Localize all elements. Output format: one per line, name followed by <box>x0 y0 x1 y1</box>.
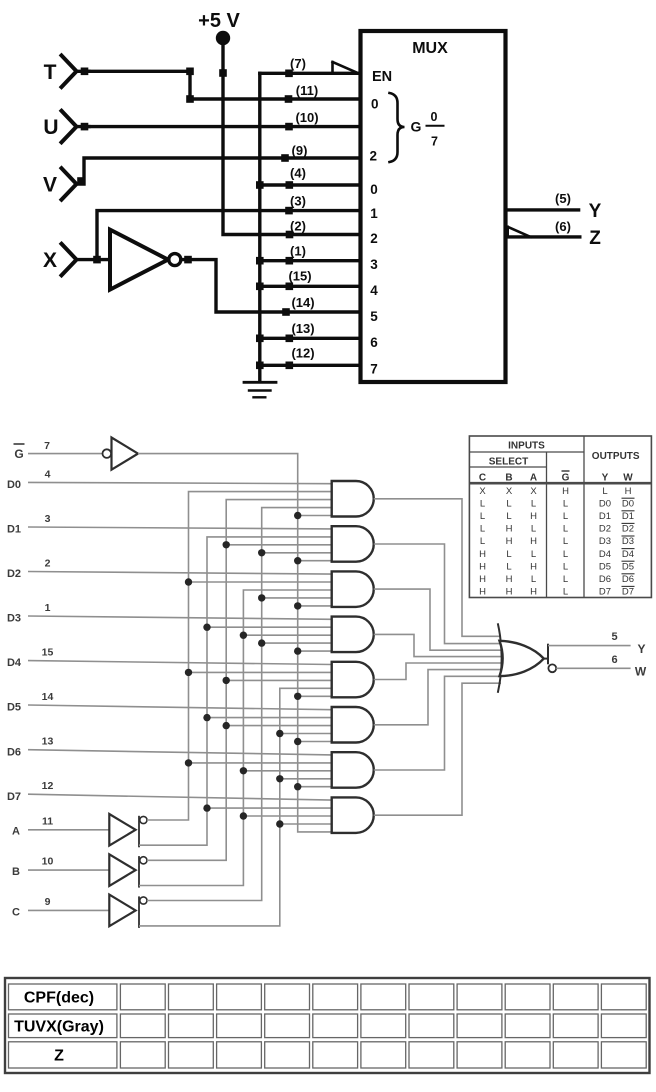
wire pin (4) from ground bus <box>260 183 359 186</box>
node dot C gate 8 <box>276 820 283 827</box>
svg-text:L: L <box>563 511 568 522</box>
svg-text:H: H <box>506 524 513 535</box>
wire S to gate 4 <box>298 650 334 652</box>
buffer A <box>109 814 147 847</box>
ground <box>244 382 276 397</box>
svg-text:2: 2 <box>370 231 378 246</box>
wire D7 to AND gate <box>28 794 332 800</box>
node dot A gate 6 <box>203 714 210 721</box>
svg-text:CPF(dec): CPF(dec) <box>24 989 94 1006</box>
output W pin 6 <box>548 654 646 679</box>
node dot An gate 7 <box>185 759 192 766</box>
answer table label CPF(dec) <box>9 984 117 1010</box>
svg-text:5: 5 <box>611 631 617 643</box>
svg-text:L: L <box>480 536 485 547</box>
svg-text:7: 7 <box>431 135 438 149</box>
svg-text:V: V <box>43 174 57 197</box>
buffer C <box>109 895 147 928</box>
svg-text:H: H <box>530 561 537 572</box>
svg-text:3: 3 <box>45 513 51 525</box>
wire pin (12) from ground bus <box>260 364 359 367</box>
wire An to gate 5 <box>189 671 334 673</box>
svg-text:(5): (5) <box>555 191 571 206</box>
wire A-true bus <box>139 537 332 845</box>
svg-text:(14): (14) <box>291 295 314 310</box>
wire D6 to AND gate <box>28 750 332 755</box>
answer table label Z <box>9 1042 117 1068</box>
wire gate 6 to OR <box>374 670 501 725</box>
svg-text:G: G <box>562 473 570 484</box>
node dot Cn gate 3 <box>258 594 265 601</box>
svg-text:9: 9 <box>45 896 51 908</box>
svg-text:10: 10 <box>42 856 54 868</box>
inverter U2 (X input) <box>110 230 181 290</box>
wire gate 7 to OR <box>374 676 501 770</box>
wire A-complement bus <box>147 492 332 820</box>
svg-text:D3: D3 <box>7 613 21 625</box>
svg-text:MUX: MUX <box>412 40 448 57</box>
svg-text:G: G <box>411 119 422 135</box>
svg-text:(3): (3) <box>290 194 306 209</box>
svg-text:5: 5 <box>370 309 378 324</box>
node dot S gate 1 <box>294 512 301 519</box>
svg-text:L: L <box>563 574 568 585</box>
svg-text:H: H <box>506 536 513 547</box>
svg-text:(11): (11) <box>296 83 318 98</box>
wire Cn to gate 4 <box>262 642 334 644</box>
svg-text:13: 13 <box>42 736 54 748</box>
svg-text:(2): (2) <box>290 219 306 234</box>
wire B to gate 4 <box>243 634 333 636</box>
svg-text:D0: D0 <box>599 498 611 509</box>
svg-text:6: 6 <box>611 654 617 666</box>
svg-text:D0: D0 <box>7 479 21 491</box>
input B pin 10 <box>12 856 109 878</box>
svg-text:1: 1 <box>370 206 378 221</box>
node dot B gate 7 <box>240 767 247 774</box>
wire A to gate 4 <box>207 626 334 628</box>
svg-text:7: 7 <box>370 362 378 377</box>
output Y pin (5) <box>507 191 602 222</box>
svg-text:D6: D6 <box>622 574 634 585</box>
wire C to gate 6 <box>280 733 334 735</box>
truth table <box>469 436 651 598</box>
truth table row 9 <box>479 586 634 597</box>
node dot Bn gate 2 <box>223 541 230 548</box>
truth table row 7 <box>479 561 634 572</box>
wire A to gate 6 <box>207 717 334 719</box>
buffer B <box>109 854 147 887</box>
wire Cn to gate 3 <box>262 597 334 599</box>
truth table row 3 <box>480 511 635 522</box>
ground bus <box>258 73 261 380</box>
node dot S gate 6 <box>294 738 301 745</box>
wire D5 to AND gate <box>28 705 332 710</box>
AND gate G1 <box>332 481 374 517</box>
svg-text:D7: D7 <box>7 791 21 803</box>
svg-text:TUVX(Gray): TUVX(Gray) <box>14 1018 104 1035</box>
wire S to gate 7 <box>298 786 334 788</box>
svg-text:Y: Y <box>589 201 602 222</box>
svg-text:L: L <box>602 486 607 497</box>
wire Cn to gate 2 <box>262 552 334 554</box>
wire D0 to AND gate <box>28 482 332 483</box>
svg-text:H: H <box>479 574 486 585</box>
power +5V <box>198 10 240 45</box>
node dot Cn gate 2 <box>258 549 265 556</box>
svg-text:D3: D3 <box>599 536 611 547</box>
wire S to gate 2 <box>298 560 334 562</box>
svg-text:L: L <box>506 498 511 509</box>
wire S to gate 5 <box>298 695 334 697</box>
svg-text:SELECT: SELECT <box>489 457 528 468</box>
AND gate G7 <box>332 752 374 788</box>
wire S to gate 1 <box>298 515 334 517</box>
wire S to gate 3 <box>298 605 334 607</box>
svg-text:Z: Z <box>589 228 601 249</box>
svg-text:(1): (1) <box>290 244 306 259</box>
svg-text:H: H <box>506 587 513 598</box>
input connector V <box>43 168 77 200</box>
wire gate 3 to OR <box>374 589 501 650</box>
svg-text:L: L <box>563 536 568 547</box>
AND gate G6 <box>332 707 374 743</box>
wire strobe bus <box>138 454 332 832</box>
input D2 pin 2 <box>7 558 51 581</box>
AND gate G4 <box>332 617 374 653</box>
svg-text:L: L <box>563 587 568 598</box>
truth table row 5 <box>480 536 635 547</box>
answer table row 2 cells <box>120 1014 646 1038</box>
svg-text:12: 12 <box>42 780 54 792</box>
svg-text:H: H <box>530 511 537 522</box>
inverter U3 (strobe) <box>103 438 139 470</box>
truth table row 4 <box>480 523 635 534</box>
svg-text:4: 4 <box>45 468 51 480</box>
svg-text:1: 1 <box>45 602 51 614</box>
output Y pin 5 <box>548 631 646 656</box>
svg-text:D4: D4 <box>599 549 611 560</box>
svg-text:X: X <box>506 486 513 497</box>
svg-text:H: H <box>562 486 569 497</box>
svg-text:L: L <box>531 574 536 585</box>
svg-text:11: 11 <box>42 815 53 827</box>
svg-text:D7: D7 <box>599 587 611 598</box>
svg-text:L: L <box>480 524 485 535</box>
svg-text:H: H <box>530 587 537 598</box>
wire U to pin (10) <box>89 125 359 128</box>
svg-text:L: L <box>506 561 511 572</box>
svg-text:D6: D6 <box>7 746 21 758</box>
wire D1 to AND gate <box>28 527 332 529</box>
svg-text:X: X <box>43 249 57 272</box>
node dot A gate 4 <box>203 624 210 631</box>
wire gate 5 to OR <box>374 663 501 680</box>
svg-text:G: G <box>14 447 23 461</box>
wire D2 to AND gate <box>28 572 332 575</box>
svg-text:D3: D3 <box>622 536 634 547</box>
svg-text:X: X <box>530 486 537 497</box>
svg-text:7: 7 <box>44 440 50 452</box>
node dot Bn gate 6 <box>223 722 230 729</box>
AND gate G5 <box>332 662 374 698</box>
svg-text:D5: D5 <box>7 702 21 714</box>
svg-text:D2: D2 <box>622 524 634 535</box>
node dot A gate 8 <box>203 804 210 811</box>
wire An to gate 7 <box>189 762 334 764</box>
svg-text:Y: Y <box>637 642 645 656</box>
svg-text:H: H <box>625 486 632 497</box>
wire D4 to AND gate <box>28 661 332 665</box>
answer table row 1 cells <box>120 984 646 1010</box>
svg-text:H: H <box>479 561 486 572</box>
svg-text:L: L <box>563 561 568 572</box>
wire An to gate 3 <box>189 581 334 583</box>
wire B-complement bus <box>147 500 332 861</box>
svg-text:14: 14 <box>42 691 54 703</box>
input D5 pin 14 <box>7 691 54 714</box>
op-amp U1 MUX box <box>361 31 506 382</box>
answer table label TUVX(Gray) <box>9 1014 117 1038</box>
svg-text:D7: D7 <box>622 587 634 598</box>
wire V to pin (9) <box>77 158 360 184</box>
svg-text:W: W <box>623 473 633 484</box>
svg-text:L: L <box>506 511 511 522</box>
input D1 pin 3 <box>7 513 51 536</box>
node dot C gate 6 <box>276 730 283 737</box>
svg-text:+5 V: +5 V <box>198 10 240 32</box>
svg-text:(12): (12) <box>291 346 314 361</box>
svg-text:(6): (6) <box>555 219 571 234</box>
wire Bn to gate 5 <box>226 679 334 681</box>
svg-text:(15): (15) <box>288 269 311 284</box>
wire inverter output to pin (14) <box>181 260 359 312</box>
wire pin (1) from ground bus <box>260 259 359 262</box>
svg-text:D4: D4 <box>7 657 22 669</box>
svg-text:B: B <box>12 866 20 878</box>
wire C-true bus <box>139 688 332 926</box>
node dot S gate 4 <box>294 647 301 654</box>
svg-text:B: B <box>505 473 512 484</box>
wire D3 to AND gate <box>28 616 332 619</box>
svg-text:D1: D1 <box>599 511 611 522</box>
svg-text:D2: D2 <box>7 568 21 580</box>
wire C to gate 8 <box>280 823 334 825</box>
wire Bn to gate 2 <box>226 544 334 546</box>
AND gate G3 <box>332 571 374 607</box>
svg-text:L: L <box>480 511 485 522</box>
wire C-complement bus <box>147 508 332 901</box>
node dot S gate 2 <box>294 557 301 564</box>
svg-text:D5: D5 <box>622 561 634 572</box>
wire Bn to gate 6 <box>226 725 334 727</box>
wire C to gate 7 <box>280 778 334 780</box>
wire T to pin (11) <box>89 71 359 99</box>
node dot S gate 5 <box>294 693 301 700</box>
node dot S gate 3 <box>294 602 301 609</box>
answer table row 3 cells <box>120 1042 646 1068</box>
svg-text:C: C <box>479 473 486 484</box>
svg-text:Y: Y <box>602 473 609 484</box>
AND gate G8 <box>332 797 374 833</box>
svg-text:D1: D1 <box>622 511 634 522</box>
svg-text:H: H <box>506 574 513 585</box>
svg-text:Z: Z <box>54 1047 64 1064</box>
truth table row 1 <box>479 486 631 497</box>
input connector X <box>43 244 110 275</box>
svg-text:0: 0 <box>370 182 378 197</box>
node dot S gate 7 <box>294 783 301 790</box>
svg-text:2: 2 <box>370 149 378 164</box>
svg-text:INPUTS: INPUTS <box>508 441 545 452</box>
svg-text:L: L <box>563 498 568 509</box>
svg-text:(13): (13) <box>291 321 314 336</box>
node X junction <box>93 256 101 264</box>
svg-text:C: C <box>12 906 20 918</box>
svg-text:X: X <box>479 486 486 497</box>
input A pin 11 <box>12 815 109 837</box>
input C pin 9 <box>12 896 109 918</box>
input connector T <box>44 56 89 88</box>
wire A to gate 8 <box>207 807 334 809</box>
wire X to pin (3) <box>97 211 359 260</box>
input D7 pin 12 <box>7 780 54 803</box>
truth table row 6 <box>479 549 634 560</box>
input D6 pin 13 <box>7 736 54 759</box>
svg-text:3: 3 <box>370 257 378 272</box>
select brace <box>390 93 405 162</box>
node dot B gate 4 <box>240 632 247 639</box>
svg-text:A: A <box>530 473 537 484</box>
svg-text:0: 0 <box>431 110 438 124</box>
svg-text:15: 15 <box>42 647 54 659</box>
svg-text:2: 2 <box>45 558 51 570</box>
node dot An gate 5 <box>185 669 192 676</box>
wire +5V to pin (2) <box>223 45 359 235</box>
AND gate G2 <box>332 526 374 562</box>
svg-text:6: 6 <box>370 335 378 350</box>
node dot Bn gate 5 <box>223 677 230 684</box>
wire B-true bus <box>139 590 332 886</box>
OR gate <box>498 623 548 693</box>
input D4 pin 15 <box>7 647 54 670</box>
svg-text:T: T <box>44 61 57 84</box>
node dot C gate 7 <box>276 775 283 782</box>
wire gate 4 to OR <box>374 634 501 656</box>
svg-text:L: L <box>531 524 536 535</box>
svg-text:L: L <box>563 524 568 535</box>
EN polarity wedge <box>333 62 360 74</box>
node dot An gate 3 <box>185 578 192 585</box>
svg-text:D6: D6 <box>599 574 611 585</box>
svg-text:OUTPUTS: OUTPUTS <box>592 451 640 462</box>
svg-text:D1: D1 <box>7 524 21 536</box>
svg-text:(10): (10) <box>295 110 318 125</box>
svg-text:L: L <box>531 498 536 509</box>
wire S to gate 6 <box>298 741 334 743</box>
svg-text:W: W <box>635 665 647 679</box>
svg-text:(4): (4) <box>290 166 306 181</box>
wire pin (13) from ground bus <box>260 337 359 340</box>
answer table <box>5 978 650 1073</box>
svg-text:H: H <box>530 536 537 547</box>
svg-text:D4: D4 <box>622 549 634 560</box>
output Z pin (6) <box>507 219 601 249</box>
input D3 pin 1 <box>7 602 51 625</box>
wire gate 2 to OR <box>374 544 501 644</box>
input connector U <box>43 111 89 143</box>
svg-text:L: L <box>480 498 485 509</box>
svg-text:D2: D2 <box>599 524 611 535</box>
svg-text:H: H <box>479 587 486 598</box>
svg-text:H: H <box>479 549 486 560</box>
svg-text:0: 0 <box>371 97 379 112</box>
svg-text:D5: D5 <box>599 561 611 572</box>
svg-text:L: L <box>563 549 568 560</box>
svg-text:A: A <box>12 826 20 838</box>
wire pin (7) EN <box>260 72 359 75</box>
svg-text:U: U <box>43 116 58 139</box>
truth table row 2 <box>480 498 635 509</box>
svg-text:EN: EN <box>372 69 392 85</box>
node dot Cn gate 4 <box>258 639 265 646</box>
wire pin (15) from ground bus <box>260 285 359 288</box>
node dot B gate 8 <box>240 812 247 819</box>
input G-bar pin 7 <box>14 440 103 461</box>
truth table row 8 <box>479 574 634 585</box>
wire B to gate 8 <box>243 815 333 817</box>
svg-text:4: 4 <box>370 283 378 298</box>
svg-text:(7): (7) <box>290 56 306 71</box>
svg-text:L: L <box>506 549 511 560</box>
svg-text:(9): (9) <box>292 143 308 158</box>
svg-text:L: L <box>531 549 536 560</box>
wire B to gate 7 <box>243 770 333 772</box>
wire gate 1 to OR <box>374 499 501 637</box>
svg-text:D0: D0 <box>622 498 634 509</box>
label G 0/7 <box>411 110 444 149</box>
input D0 pin 4 <box>7 468 51 491</box>
wire gate 8 to OR <box>374 683 501 815</box>
